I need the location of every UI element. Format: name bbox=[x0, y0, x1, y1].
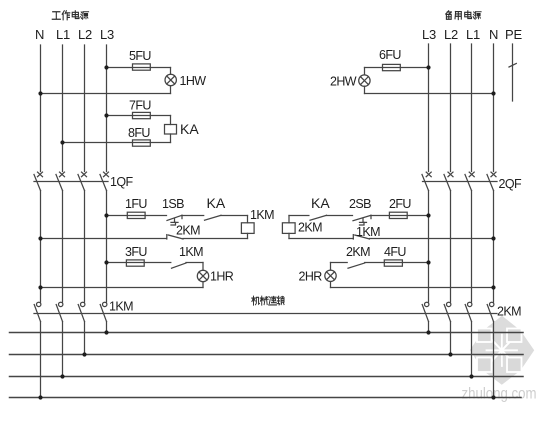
junction dot L1/8FU bbox=[60, 140, 64, 144]
label 机械连锁 bbox=[252, 296, 284, 305]
svg-text:2HW: 2HW bbox=[330, 75, 357, 89]
phase line L2 left (lower) bbox=[84, 322, 86, 355]
fuse 7FU bbox=[133, 112, 151, 118]
fuse 6FU bbox=[383, 64, 401, 70]
phase line L3 right (upper) bbox=[428, 44, 430, 172]
wire lamp 1HW riser top bbox=[170, 68, 172, 75]
wire 2KM coil to KA contact (right) bbox=[289, 215, 309, 217]
phase line L2 left (upper) bbox=[84, 45, 86, 172]
phase line N left (lower) bbox=[40, 322, 42, 398]
watermark logo white rays bbox=[483, 331, 521, 371]
lamp 1HR bbox=[197, 270, 208, 281]
svg-text:1HR: 1HR bbox=[210, 270, 234, 284]
phase line L1 right (middle) bbox=[471, 191, 473, 303]
wire 1KM contact to 1HR bbox=[186, 262, 203, 264]
wire 2KM contact to 4FU bbox=[365, 262, 429, 264]
junction dot L3/7FU bbox=[104, 113, 108, 117]
wire KA contact to 1KM coil bbox=[221, 215, 248, 217]
svg-text:N: N bbox=[35, 27, 44, 42]
svg-text:KA: KA bbox=[311, 195, 330, 211]
watermark logo arm N bbox=[483, 316, 521, 351]
phase line L1 left (middle) bbox=[62, 191, 64, 303]
junction dot N/return branch bbox=[38, 236, 42, 240]
svg-text:2KM: 2KM bbox=[346, 245, 370, 259]
phase line N right (upper) bbox=[493, 44, 495, 172]
PE slash mark bbox=[509, 64, 516, 68]
junction dot N/1HW return bbox=[38, 91, 42, 95]
watermark logo arm E bbox=[502, 331, 534, 371]
junction dot Nright/return branch bbox=[491, 236, 495, 240]
wire 1HR return to N bbox=[41, 287, 204, 289]
watermark logo square BL bbox=[477, 358, 492, 373]
mechanical interlock line bbox=[34, 313, 497, 315]
bus line 1 bbox=[10, 332, 524, 334]
fuse 2FU bbox=[389, 212, 407, 218]
junction dot L3/bus1 bbox=[104, 330, 108, 334]
wire 1KM coil bottom riser bbox=[247, 233, 249, 238]
breaker 2QF linkage bbox=[423, 181, 498, 183]
svg-text:7FU: 7FU bbox=[129, 99, 151, 113]
svg-text:L1: L1 bbox=[466, 27, 480, 42]
junction dot Nright/bus4 bbox=[491, 395, 495, 399]
contactor 1KM pole N bbox=[34, 302, 41, 321]
wire lamp 1HR riser top bbox=[202, 263, 204, 271]
contact 2KM lamp (NO) bbox=[348, 263, 365, 268]
svg-text:1HW: 1HW bbox=[180, 74, 207, 88]
wire 2HW return to N right bbox=[365, 93, 494, 95]
phase line L1 right (lower) bbox=[471, 322, 473, 377]
contactor 1KM pole L3 bbox=[100, 302, 107, 321]
contact KA right (NO) bbox=[310, 215, 327, 220]
fuse 8FU bbox=[133, 140, 151, 146]
lamp 2HR bbox=[325, 270, 336, 281]
svg-text:L2: L2 bbox=[78, 27, 92, 42]
phase line L3 left (upper) bbox=[106, 45, 108, 172]
wire 2KM contact to 1KM coil bbox=[183, 238, 248, 240]
junction dot Nright/2HW return bbox=[491, 91, 495, 95]
junction dot L3right/6FU bbox=[426, 65, 430, 69]
breaker 1QF pole N bbox=[34, 172, 43, 190]
wire lamp 1HR return riser bbox=[202, 282, 204, 288]
breaker 2QF pole L3 bbox=[422, 172, 431, 190]
wire lamp 1HW return riser bbox=[170, 86, 172, 94]
phase line L2 left (middle) bbox=[84, 191, 86, 303]
wire 2HR to 2KM contact bbox=[331, 262, 348, 264]
relay coil KA bbox=[165, 125, 177, 135]
contactor 2KM pole L2 bbox=[444, 302, 451, 321]
wire 7FU row bbox=[107, 115, 171, 117]
bus line 3 bbox=[10, 376, 524, 378]
svg-text:2KM: 2KM bbox=[176, 224, 200, 238]
watermark logo square TR bbox=[507, 329, 522, 343]
svg-text:2KM: 2KM bbox=[298, 221, 322, 235]
contactor 2KM pole L1 bbox=[465, 302, 472, 321]
contact 1KM (NC) bbox=[353, 235, 369, 239]
fuse 4FU bbox=[384, 260, 402, 266]
svg-text:PE: PE bbox=[505, 27, 522, 42]
svg-text:2SB: 2SB bbox=[349, 197, 371, 211]
svg-text:1KM: 1KM bbox=[109, 300, 133, 314]
bus line 4 bbox=[10, 397, 522, 399]
contactor 1KM pole L1 bbox=[56, 302, 63, 321]
pushbutton 2SB (NC) bbox=[353, 215, 371, 225]
phase line L2 right (lower) bbox=[450, 322, 452, 355]
wire 1KM coil top riser bbox=[247, 216, 249, 223]
svg-text:1SB: 1SB bbox=[162, 197, 184, 211]
svg-text:2FU: 2FU bbox=[389, 197, 411, 211]
junction dot L3/5FU bbox=[104, 65, 108, 69]
contact 2KM (NC) bbox=[167, 235, 183, 239]
junction dot L3right/4FU bbox=[426, 260, 430, 264]
phase line N left (middle) bbox=[40, 191, 42, 303]
svg-text:KA: KA bbox=[207, 195, 226, 211]
wire 2HR return to N right bbox=[331, 287, 494, 289]
svg-text:L1: L1 bbox=[56, 27, 70, 42]
svg-text:6FU: 6FU bbox=[379, 48, 401, 62]
WATERMARK-GROUP bbox=[462, 316, 537, 403]
contact KA (NO) bbox=[205, 215, 222, 220]
watermark logo square TL bbox=[477, 329, 492, 343]
lamp 2HW bbox=[359, 75, 370, 86]
bus line 2 bbox=[10, 354, 524, 356]
svg-text:4FU: 4FU bbox=[384, 245, 406, 259]
wire 2KM coil top riser bbox=[288, 216, 290, 223]
contactor 2KM pole N bbox=[487, 302, 494, 321]
contact 1KM lamp (NO) bbox=[172, 263, 187, 268]
svg-text:1FU: 1FU bbox=[125, 197, 147, 211]
wire 2KM coil bottom riser bbox=[288, 233, 290, 238]
svg-text:KA: KA bbox=[180, 121, 199, 137]
svg-text:L2: L2 bbox=[444, 27, 458, 42]
svg-text:2KM: 2KM bbox=[497, 305, 521, 319]
watermark logo arm W bbox=[470, 331, 502, 371]
junction dot L3/1FU bbox=[104, 213, 108, 217]
fuse 5FU bbox=[133, 64, 151, 70]
wire 1HW return to N bbox=[41, 93, 171, 95]
pushbutton 1SB (NC) bbox=[167, 215, 182, 225]
wire KA right to 2SB bbox=[327, 215, 353, 217]
junction dot N/1HR return bbox=[38, 285, 42, 289]
wire 1KM contact to N right bbox=[370, 238, 494, 240]
svg-text:5FU: 5FU bbox=[129, 49, 151, 63]
breaker 1QF pole L3 bbox=[100, 172, 109, 190]
phase line L2 right (middle) bbox=[450, 191, 452, 303]
contactor 2KM pole L3 bbox=[422, 302, 429, 321]
wire KA coil top riser bbox=[170, 116, 172, 125]
wire return branch N to 2KM contact bbox=[41, 238, 167, 240]
wire lamp 2HR riser top bbox=[330, 263, 332, 271]
svg-text:L3: L3 bbox=[422, 27, 436, 42]
breaker 2QF pole L1 bbox=[465, 172, 474, 190]
phase line N right (middle) bbox=[493, 191, 495, 303]
junction dot L1/bus3 bbox=[60, 374, 64, 378]
phase line L3 left (lower) bbox=[106, 322, 108, 333]
wire 2KM coil to 1KM contact branch bbox=[289, 238, 353, 240]
breaker 2QF pole L2 bbox=[444, 172, 453, 190]
wire 1SB to KA contact bbox=[182, 215, 204, 217]
contactor coil 1KM bbox=[241, 223, 254, 234]
junction dot Nright/2HR return bbox=[491, 285, 495, 289]
breaker 2QF pole N bbox=[487, 172, 496, 190]
junction dot L3right/2FU bbox=[426, 213, 430, 217]
breaker 1QF pole L1 bbox=[56, 172, 65, 190]
fuse 3FU bbox=[126, 260, 144, 266]
svg-text:1QF: 1QF bbox=[110, 175, 133, 189]
phase line L3 right (lower) bbox=[428, 322, 430, 333]
breaker 1QF pole L2 bbox=[78, 172, 87, 190]
phase line L3 left (middle) bbox=[106, 191, 108, 303]
wire lamp 2HR return riser bbox=[330, 282, 332, 288]
wire 8FU row bbox=[63, 142, 171, 144]
phase line L1 right (upper) bbox=[471, 44, 473, 172]
junction dot L1right/bus3 bbox=[469, 374, 473, 378]
junction dot L3right/bus1 bbox=[426, 330, 430, 334]
watermark logo square BR bbox=[507, 358, 522, 373]
junction dot L2/bus2 bbox=[82, 352, 86, 356]
junction dot L2right/bus2 bbox=[448, 352, 452, 356]
svg-text:8FU: 8FU bbox=[128, 126, 150, 140]
wire 5FU row bbox=[107, 67, 171, 69]
watermark logo arm S bbox=[483, 350, 521, 385]
wire KA coil bottom riser bbox=[170, 134, 172, 143]
svg-text:L3: L3 bbox=[100, 27, 114, 42]
svg-text:2QF: 2QF bbox=[499, 177, 522, 191]
svg-text:1KM: 1KM bbox=[250, 208, 274, 222]
phase line L2 right (upper) bbox=[450, 44, 452, 172]
svg-text:1KM: 1KM bbox=[356, 225, 380, 239]
wire control row L3 to 1SB bbox=[107, 215, 167, 217]
phase line L3 right (middle) bbox=[428, 191, 430, 303]
contactor 1KM pole L2 bbox=[78, 302, 85, 321]
wire lamp 2HW riser top bbox=[364, 68, 366, 75]
junction dot N/bus4 bbox=[38, 395, 42, 399]
wire 2SB to 2FU bbox=[371, 215, 429, 217]
phase line N right (lower) bbox=[493, 322, 495, 398]
svg-text:2HR: 2HR bbox=[299, 270, 323, 284]
lamp 1HW bbox=[165, 74, 176, 85]
wire 6FU row bbox=[365, 67, 429, 69]
svg-text:zhulong.com: zhulong.com bbox=[462, 386, 537, 403]
contactor coil 2KM bbox=[282, 223, 295, 234]
svg-text:N: N bbox=[489, 27, 498, 42]
wire lamp 2HW return riser bbox=[364, 86, 366, 93]
title 备用电源 bbox=[446, 11, 481, 20]
line PE bbox=[512, 44, 514, 101]
wire 3FU row bbox=[107, 262, 171, 264]
phase line L1 left (upper) bbox=[62, 45, 64, 172]
phase line L1 left (lower) bbox=[62, 322, 64, 377]
junction dot L3/3FU bbox=[104, 260, 108, 264]
fuse 1FU bbox=[127, 212, 145, 218]
svg-text:1KM: 1KM bbox=[179, 245, 203, 259]
breaker 1QF linkage bbox=[34, 181, 108, 183]
title 工作电源 bbox=[52, 11, 88, 20]
phase line N left (upper) bbox=[40, 45, 42, 172]
svg-text:3FU: 3FU bbox=[125, 245, 147, 259]
